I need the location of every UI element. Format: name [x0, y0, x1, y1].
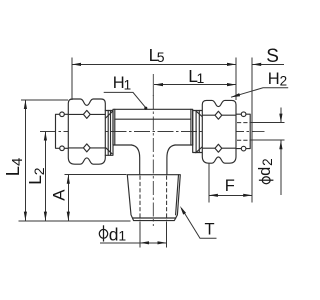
svg-text:1: 1 — [124, 78, 132, 93]
svg-text:L: L — [2, 166, 23, 176]
svg-text:d: d — [256, 167, 274, 176]
svg-text:5: 5 — [157, 49, 165, 65]
svg-text:S: S — [266, 46, 279, 67]
svg-text:1: 1 — [118, 228, 126, 244]
svg-text:H: H — [268, 70, 280, 88]
svg-text:F: F — [225, 177, 235, 195]
svg-text:T: T — [205, 221, 215, 239]
svg-text:4: 4 — [9, 158, 26, 166]
svg-text:2: 2 — [260, 158, 275, 166]
svg-text:d: d — [109, 225, 119, 245]
svg-text:2: 2 — [280, 74, 288, 89]
svg-text:2: 2 — [31, 167, 47, 175]
svg-text:1: 1 — [197, 70, 205, 86]
svg-text:L: L — [25, 175, 45, 185]
svg-text:A: A — [49, 189, 68, 201]
